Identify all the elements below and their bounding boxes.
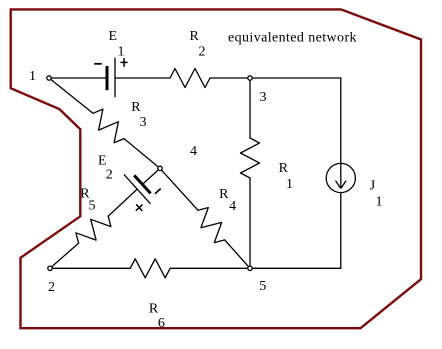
E1 plus sign: [120, 58, 127, 67]
E2 minus sign: [155, 189, 161, 194]
svg-text:J: J: [370, 178, 376, 193]
wire J1 to bottom right: [340, 193, 342, 269]
svg-text:R: R: [219, 187, 229, 202]
svg-text:R: R: [279, 161, 289, 176]
node 2: [48, 266, 52, 270]
svg-text:R: R: [149, 301, 159, 316]
svg-text:1: 1: [376, 195, 383, 210]
wire node3 down to R1: [249, 78, 251, 138]
wire E2 to R5: [108, 189, 137, 216]
resistor R5: [76, 216, 111, 243]
svg-text:5: 5: [89, 199, 96, 214]
svg-text:5: 5: [259, 279, 266, 294]
node 1: [47, 76, 51, 80]
node 5: [248, 266, 252, 270]
svg-text:4: 4: [229, 199, 236, 214]
wire R4 to node5: [225, 240, 250, 268]
svg-text:2: 2: [199, 44, 206, 59]
E2 plus sign: [136, 204, 143, 211]
svg-text:6: 6: [158, 316, 165, 331]
wire node4 to E2: [142, 168, 160, 184]
resistor R3: [93, 109, 124, 143]
wire right branch down to J1: [340, 78, 342, 163]
battery E2 negative plate: [134, 175, 150, 193]
svg-text:E: E: [109, 29, 118, 44]
svg-text:E: E: [98, 153, 107, 168]
current source J1: [326, 163, 355, 192]
E1 minus sign: [94, 63, 102, 65]
svg-text:4: 4: [190, 144, 197, 159]
resistor R6: [130, 259, 170, 278]
wire node5 to right branch: [250, 267, 341, 269]
svg-text:equivalented network: equivalented network: [228, 30, 357, 45]
svg-text:2: 2: [48, 280, 55, 295]
svg-text:3: 3: [260, 90, 267, 105]
svg-text:R: R: [190, 29, 200, 44]
battery E1 negative plate: [106, 66, 109, 90]
node 3: [248, 76, 252, 80]
svg-text:R: R: [131, 100, 141, 115]
node 4: [158, 166, 162, 170]
battery E1 positive plate: [114, 58, 116, 98]
battery E2 positive plate: [124, 174, 151, 203]
wire R1 to node5: [249, 178, 251, 268]
wire E1 to R2: [115, 77, 170, 79]
wire node1 to E1: [49, 77, 106, 79]
wire R6 to node5: [170, 267, 250, 269]
wire node2 to R6: [50, 267, 130, 269]
wire node1 to R3: [49, 78, 93, 113]
resistor R2: [170, 69, 210, 88]
svg-text:3: 3: [140, 115, 147, 130]
svg-text:1: 1: [29, 69, 36, 84]
svg-text:1: 1: [286, 177, 293, 192]
resistor R1: [241, 138, 260, 178]
wire R3 to node4: [124, 139, 160, 169]
wire R5 to node2: [50, 243, 79, 268]
wire R2 to node3 to right branch: [210, 77, 341, 79]
wire node4 to R4: [160, 168, 198, 210]
svg-text:2: 2: [106, 168, 113, 183]
resistor R4: [198, 208, 225, 243]
svg-text:1: 1: [118, 44, 125, 59]
